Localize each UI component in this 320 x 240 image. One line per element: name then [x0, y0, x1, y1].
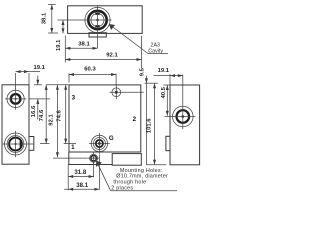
svg-text:40.5: 40.5	[161, 86, 167, 98]
left view upper port	[7, 90, 24, 107]
right view circle	[173, 106, 194, 127]
svg-text:60.3: 60.3	[84, 67, 96, 73]
dim 38.1 horizontal (below top view)	[65, 36, 97, 63]
front view top edge extension ticks	[34, 84, 68, 86]
svg-text:92.1: 92.1	[106, 52, 118, 58]
top edge tick (right of front view)	[145, 82, 158, 84]
right side view block outline	[170, 85, 200, 165]
left view cavity nose tab	[29, 137, 34, 151]
cavity crosshair centerlines	[57, 5, 111, 48]
dim 19.1 vertical (top view left)	[56, 20, 65, 51]
hole centerline extension left	[53, 157, 87, 159]
port G crosshair	[89, 133, 110, 154]
svg-text:1: 1	[71, 144, 75, 151]
front view base plate	[68, 152, 141, 165]
port 3 centerline tick	[30, 98, 51, 100]
top view block outline	[68, 6, 143, 34]
bottom dims extension lines	[68, 155, 99, 191]
svg-text:2A3: 2A3	[151, 42, 160, 48]
bottom mounting hole	[88, 152, 100, 164]
left side view block outline	[2, 85, 29, 164]
port G circle	[91, 135, 107, 151]
port G centerline ticks	[40, 143, 76, 145]
dim 101.6 (right view left)	[146, 83, 166, 165]
port G label	[109, 135, 114, 142]
dim 74.6 a (front view left)	[39, 85, 48, 144]
dim 31.8	[68, 169, 93, 178]
dim 74.6 b (front view left)	[57, 85, 68, 144]
dim 9.5 leader line	[140, 67, 148, 164]
dim 38.1 bottom	[64, 182, 99, 191]
port 2 label	[133, 116, 137, 123]
2A3 cavity circle (top view)	[85, 7, 110, 32]
svg-text:38.1: 38.1	[78, 41, 90, 47]
cavity plug tab (top view bottom edge)	[89, 33, 106, 37]
dim 38.1 vertical (top view left)	[42, 5, 58, 34]
port 3 label	[72, 95, 76, 102]
dim 60.3 (above front view)	[69, 67, 116, 86]
svg-text:G: G	[109, 135, 114, 142]
svg-text:3: 3	[72, 95, 76, 102]
dim 92.1 vertical (front view left)	[49, 85, 59, 158]
left view lower port	[5, 133, 27, 155]
2A3 Cavity leader and note	[109, 24, 168, 55]
svg-text:38.1: 38.1	[76, 182, 88, 189]
dim 19.1 (right view top)	[154, 68, 183, 85]
svg-text:19.1: 19.1	[33, 65, 45, 71]
right view circle crosshair	[165, 75, 196, 130]
dim 40.5 (right view)	[161, 85, 170, 116]
dim 16.6 (front view left)	[31, 76, 39, 120]
left upper port crosshair	[5, 73, 26, 110]
svg-text:31.8: 31.8	[74, 169, 86, 176]
svg-text:38.1: 38.1	[42, 12, 48, 24]
svg-text:16.6: 16.6	[31, 105, 37, 117]
dim 19.1 (left view top)	[16, 65, 46, 85]
mounting holes leader	[96, 161, 111, 191]
svg-text:92.1: 92.1	[49, 114, 55, 126]
svg-text:2: 2	[133, 116, 137, 123]
svg-text:74.6: 74.6	[39, 109, 45, 121]
front view block outline	[69, 85, 141, 152]
left lower port crosshair	[3, 131, 34, 157]
svg-text:74.6: 74.6	[57, 110, 63, 122]
right view cavity nose tab	[166, 136, 170, 150]
svg-text:9.5: 9.5	[140, 67, 146, 76]
mounting holes note	[111, 168, 177, 191]
dim 92.1 horizontal (below top view)	[65, 36, 141, 68]
svg-text:19.1: 19.1	[56, 39, 62, 51]
svg-text:19.1: 19.1	[158, 68, 170, 74]
svg-text:101.6: 101.6	[147, 118, 153, 133]
top mounting hole (front view)	[110, 86, 144, 100]
port 1 label	[71, 144, 75, 151]
